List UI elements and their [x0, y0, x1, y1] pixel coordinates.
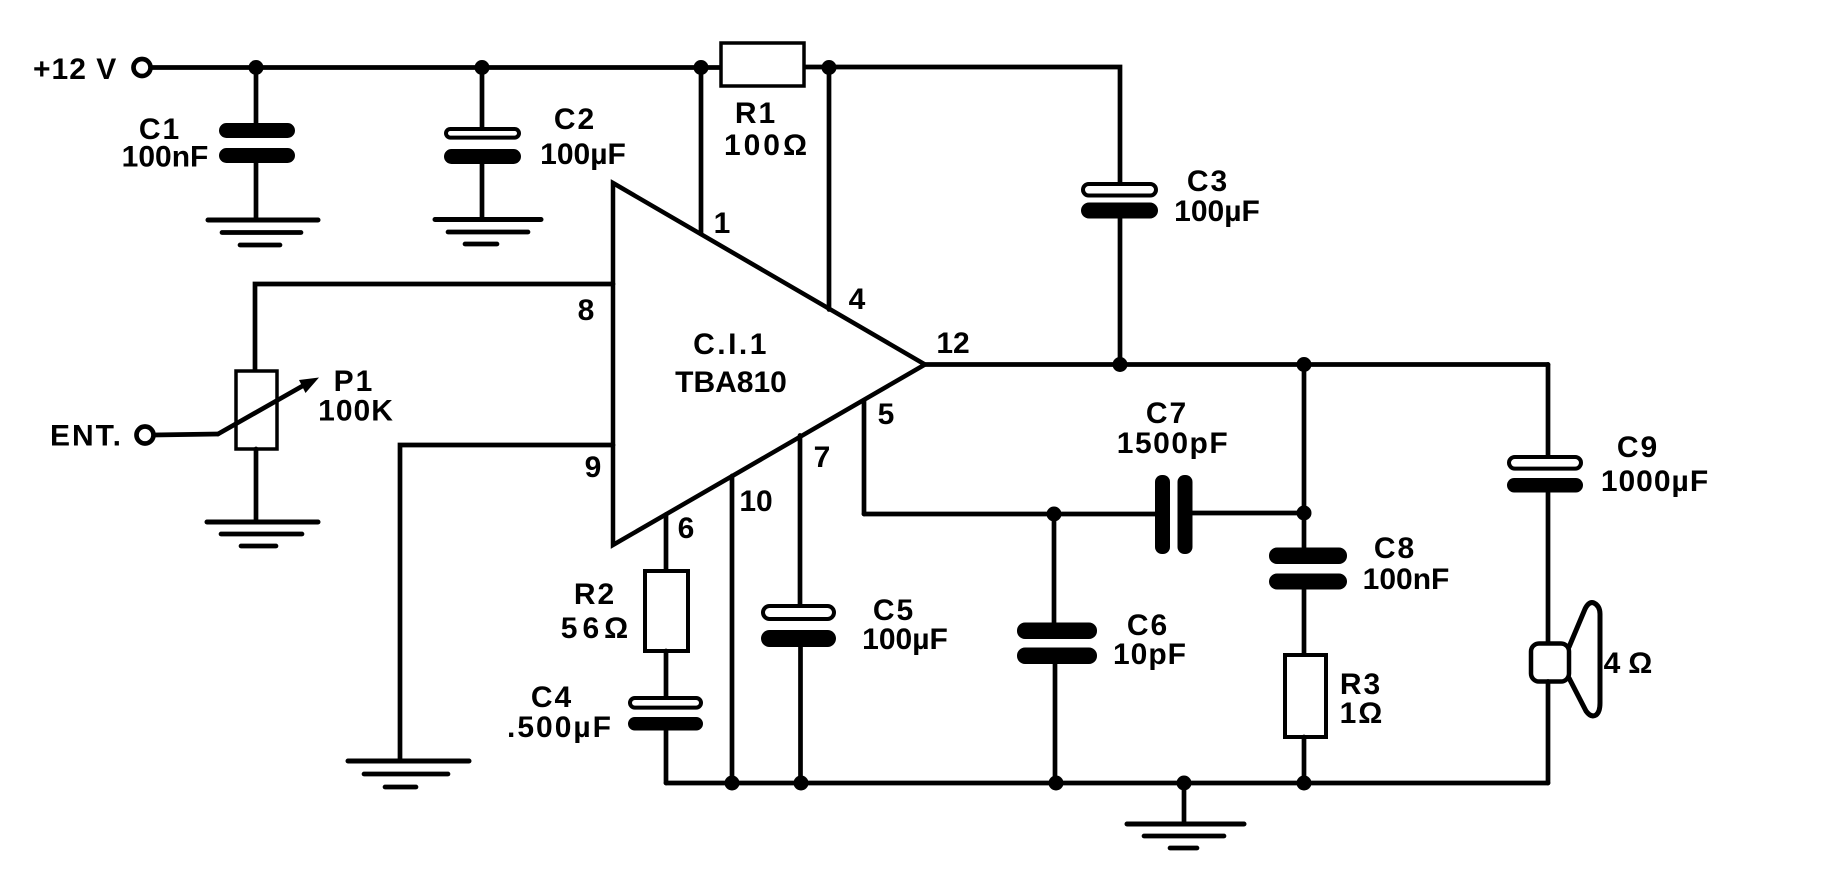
- P1 wiper arrow: [218, 384, 306, 434]
- svg-text:C3: C3: [1187, 165, 1229, 198]
- node junction bus / pin 10: [725, 776, 740, 791]
- wire pin 7: [798, 436, 803, 605]
- node junction C7 right / feedback node: [1297, 506, 1312, 521]
- svg-text:8: 8: [578, 294, 595, 327]
- +12V input terminal: [134, 59, 151, 76]
- wire pin 8: [255, 284, 613, 371]
- wire feedback node vertical: [1302, 365, 1307, 548]
- wire pin 1: [699, 68, 704, 235]
- svg-text:100µF: 100µF: [862, 623, 948, 656]
- ground under bus: [1127, 822, 1244, 827]
- wire speaker bottom lead: [1546, 682, 1551, 784]
- node junction at C1: [249, 60, 264, 75]
- svg-text:1000µF: 1000µF: [1601, 465, 1709, 498]
- ground under pin 9 wire: [348, 759, 469, 764]
- capacitor C5 (100uF) plates: [763, 606, 834, 619]
- svg-text:4Ω: 4Ω: [1604, 647, 1661, 680]
- node junction output / C3: [1113, 357, 1128, 372]
- wire ground tap: [1182, 783, 1187, 824]
- svg-text:.500µF: .500µF: [507, 711, 613, 744]
- svg-text:R1: R1: [735, 97, 777, 130]
- wire C2 bottom lead: [480, 164, 485, 220]
- svg-text:5: 5: [878, 398, 895, 431]
- node junction C6 tap: [1047, 507, 1062, 522]
- svg-text:100nF: 100nF: [122, 141, 209, 174]
- ground under P1: [207, 520, 318, 525]
- svg-text:C9: C9: [1617, 431, 1659, 464]
- wire C4 bottom lead to ground bus: [664, 731, 669, 784]
- ENT input terminal: [137, 427, 154, 444]
- svg-text:100µF: 100µF: [1174, 195, 1260, 228]
- svg-text:C.I.1: C.I.1: [693, 328, 769, 361]
- svg-text:100K: 100K: [318, 395, 394, 428]
- wire pin 6: [664, 515, 669, 572]
- speaker body (4 ohm): [1531, 644, 1569, 682]
- svg-text:7: 7: [814, 441, 831, 474]
- svg-text:P1: P1: [334, 365, 375, 398]
- wire C7 right plate to output node: [1193, 511, 1305, 516]
- wire ENT to wiper: [153, 434, 218, 435]
- svg-text:C8: C8: [1374, 532, 1416, 565]
- svg-text:100nF: 100nF: [1363, 563, 1450, 596]
- speaker horn: [1569, 603, 1600, 716]
- wire R2 to C4: [664, 651, 669, 696]
- node junction bus / R3: [1297, 776, 1312, 791]
- svg-text:10pF: 10pF: [1113, 638, 1187, 671]
- resistor R2: [645, 571, 688, 651]
- capacitor C4 (500uF) plates: [630, 698, 701, 708]
- node junction bus / C6: [1049, 776, 1064, 791]
- wire output corner down to C9: [1546, 365, 1551, 456]
- capacitor C7 (1500pF) plates: [1155, 475, 1170, 554]
- capacitor C9 (1000uF) plates: [1509, 457, 1581, 469]
- resistor R3: [1285, 655, 1326, 737]
- svg-text:C2: C2: [554, 103, 596, 136]
- svg-text:C4: C4: [531, 681, 573, 714]
- svg-text:TBA810: TBA810: [675, 366, 787, 399]
- wire C8 to R3: [1302, 590, 1307, 656]
- svg-text:1: 1: [714, 207, 731, 240]
- svg-text:56Ω: 56Ω: [561, 612, 633, 645]
- svg-text:ENT.: ENT.: [50, 420, 123, 453]
- svg-text:4: 4: [849, 283, 866, 316]
- capacitor C6 (10pF) plates: [1017, 623, 1097, 640]
- wire pin 12 output: [925, 362, 1548, 367]
- wire C9 to speaker: [1546, 493, 1551, 645]
- svg-text:10: 10: [739, 485, 772, 518]
- svg-text:6: 6: [678, 512, 695, 545]
- node junction at R1 left / pin 1: [694, 60, 709, 75]
- svg-text:1Ω: 1Ω: [1340, 697, 1385, 730]
- wire C6 top lead: [1052, 514, 1057, 623]
- wire C1 bottom lead: [254, 163, 259, 220]
- node junction at C2: [475, 60, 490, 75]
- svg-text:100Ω: 100Ω: [724, 129, 810, 162]
- svg-text:12: 12: [936, 327, 969, 360]
- capacitor C8 (100nF) plates: [1269, 548, 1347, 565]
- wire pin 10: [730, 476, 735, 783]
- wire C2 top lead: [480, 68, 485, 128]
- svg-text:R2: R2: [574, 578, 616, 611]
- ground under C2: [435, 217, 541, 222]
- capacitor C2 (100uF) plates: [446, 129, 519, 138]
- wire pin 9: [400, 445, 613, 761]
- node junction output / feedback branch: [1297, 357, 1312, 372]
- capacitor C1 (100nF) plates: [219, 123, 295, 138]
- svg-text:1500pF: 1500pF: [1117, 427, 1229, 460]
- op-amp U1 (C.I.1 TBA810 triangle body): [613, 183, 925, 545]
- wire pin 5 vertical: [862, 401, 867, 515]
- +12V supply rail wire (right of R1 to C3 corner): [804, 67, 1120, 183]
- wire C1 top lead: [254, 68, 259, 124]
- svg-text:+12 V: +12 V: [33, 53, 117, 86]
- wire P1 bottom lead: [254, 449, 259, 522]
- wire pin 4: [827, 68, 832, 310]
- node junction bus / ground tap: [1177, 776, 1192, 791]
- svg-text:100µF: 100µF: [540, 138, 626, 171]
- wire pin 5 node horizontal to C7: [864, 512, 1155, 517]
- wire R3 bottom lead to ground bus: [1302, 737, 1307, 783]
- ground bus wire: [666, 781, 1548, 786]
- resistor R1: [721, 43, 804, 86]
- ground under C1: [208, 218, 318, 223]
- capacitor C3 (100uF) top lead is rail corner; plates: [1083, 184, 1156, 196]
- node junction at R1 right / pin 4: [822, 60, 837, 75]
- wire C3 bottom lead: [1118, 219, 1123, 365]
- node junction bus / C5: [794, 776, 809, 791]
- svg-text:C7: C7: [1146, 397, 1188, 430]
- wire C6 bottom lead to ground bus: [1053, 664, 1058, 783]
- potentiometer P1 body: [236, 371, 277, 449]
- +12V supply rail wire (left segment): [152, 65, 721, 70]
- wire C5 bottom lead to ground bus: [798, 647, 803, 783]
- svg-text:9: 9: [585, 451, 602, 484]
